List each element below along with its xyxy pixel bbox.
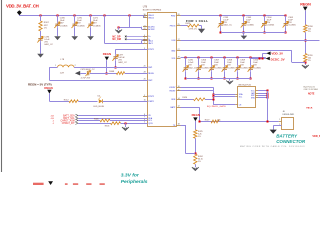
svg-text:CE: CE bbox=[239, 105, 242, 107]
junction bbox=[185, 78, 187, 80]
resistor R412 bbox=[69, 100, 78, 103]
svg-text:REGN: REGN bbox=[148, 73, 154, 75]
capacitor C470 bbox=[74, 22, 76, 25]
capacitor C281 bbox=[185, 57, 187, 65]
svg-text:DCDC_3V: DCDC_3V bbox=[271, 57, 285, 61]
power arrow clipped bbox=[48, 181, 53, 185]
wire bbox=[40, 31, 42, 36]
wire L78 left loop to SW2 bbox=[49, 67, 57, 69]
wire bbox=[40, 43, 42, 54]
svg-text:CC0805: CC0805 bbox=[60, 25, 68, 27]
svg-text:D+: D+ bbox=[148, 36, 151, 38]
svg-text:PACK: PACK bbox=[306, 107, 312, 110]
svg-text:PWD: PWD bbox=[171, 15, 176, 17]
svg-text:BTST2: BTST2 bbox=[148, 96, 154, 98]
wire bbox=[258, 90, 268, 92]
junction bbox=[220, 15, 222, 17]
svg-text:ILIM: ILIM bbox=[172, 40, 176, 42]
svg-text:25: 25 bbox=[178, 24, 180, 26]
svg-text:R306: R306 bbox=[94, 118, 99, 120]
svg-text:SRN: SRN bbox=[251, 98, 255, 100]
svg-text:GND: GND bbox=[171, 51, 176, 53]
svg-text:3.3V for: 3.3V for bbox=[121, 172, 140, 178]
capacitor C293 bbox=[220, 16, 222, 22]
wire BTST1 bbox=[116, 49, 148, 51]
svg-text:MATING CONN WITH CABLE P/N: DJ: MATING CONN WITH CABLE P/N: DJS1S0103 bbox=[240, 145, 305, 148]
svg-text:SW1: SW1 bbox=[148, 67, 152, 69]
wire bbox=[243, 33, 245, 36]
junction bbox=[285, 15, 287, 17]
wire bbox=[106, 60, 108, 73]
junction bbox=[264, 32, 266, 34]
wire LODRV bbox=[181, 87, 214, 89]
svg-text:VDD_3V: VDD_3V bbox=[271, 52, 283, 56]
junction bbox=[211, 78, 213, 80]
svg-text:VBL02: VBL02 bbox=[148, 18, 154, 20]
svg-text:1%: 1% bbox=[198, 136, 201, 138]
svg-text:LODRV: LODRV bbox=[169, 87, 176, 89]
svg-text:CC0805: CC0805 bbox=[267, 24, 275, 26]
svg-text:NC_DM: NC_DM bbox=[112, 38, 121, 41]
svg-text:CHRGT_INT: CHRGT_INT bbox=[62, 123, 76, 125]
svg-text:4.7uF 25V: 4.7uF 25V bbox=[81, 78, 91, 80]
wire bbox=[125, 123, 127, 127]
svg-text:1uH: 1uH bbox=[60, 72, 64, 74]
junction bbox=[224, 78, 226, 80]
svg-text:28: 28 bbox=[178, 57, 180, 59]
wire CHRGT_ASM bbox=[78, 120, 100, 122]
wire bbox=[195, 121, 197, 130]
resistor R427 bbox=[211, 120, 219, 123]
resistor R408 bbox=[116, 72, 124, 75]
svg-text:R427: R427 bbox=[205, 119, 210, 121]
junction bbox=[267, 95, 269, 97]
junction bbox=[250, 78, 252, 80]
svg-text:0402_CC: 0402_CC bbox=[44, 44, 53, 46]
ground bbox=[71, 36, 78, 40]
wire SYS rail y=58 bbox=[181, 57, 266, 59]
junction bbox=[264, 15, 266, 17]
capacitor C308 bbox=[224, 57, 226, 65]
ground bbox=[37, 54, 44, 58]
wire bbox=[305, 11, 307, 25]
svg-text:1%: 1% bbox=[308, 31, 311, 33]
svg-text:14: 14 bbox=[178, 98, 180, 100]
junction bbox=[243, 32, 245, 34]
junction bbox=[125, 123, 127, 125]
svg-text:VDD_3V_BAT_CH: VDD_3V_BAT_CH bbox=[6, 4, 39, 9]
svg-text:4: 4 bbox=[53, 120, 55, 122]
junction bbox=[220, 32, 222, 34]
svg-text:DS2001-WR1: DS2001-WR1 bbox=[283, 114, 295, 116]
svg-text:C478 0402_CC: C478 0402_CC bbox=[80, 69, 95, 71]
svg-text:27: 27 bbox=[178, 49, 180, 51]
net label clipped bottom 2 bbox=[65, 183, 68, 185]
svg-text:CC0805: CC0805 bbox=[77, 25, 85, 27]
wire bbox=[213, 96, 235, 98]
svg-text:BQ#PACK_GATE: BQ#PACK_GATE bbox=[207, 105, 226, 108]
junction bbox=[267, 97, 269, 99]
junction bbox=[195, 153, 197, 155]
resistor R307 bbox=[39, 21, 42, 31]
junction bbox=[243, 15, 245, 17]
wire GND line bbox=[181, 50, 292, 52]
ground bbox=[270, 130, 277, 134]
junction bbox=[129, 15, 131, 17]
svg-text:9: 9 bbox=[144, 95, 145, 97]
wire caps row2 bottom bus bbox=[186, 78, 251, 80]
op-amp U78 charger IC body bbox=[148, 13, 177, 127]
svg-text:CE: CE bbox=[148, 115, 151, 117]
svg-text:STAT1: STAT1 bbox=[148, 100, 154, 103]
junction bbox=[40, 15, 42, 17]
svg-text:SCL: SCL bbox=[148, 120, 152, 122]
junction bbox=[198, 78, 200, 80]
svg-text:CONNECTOR: CONNECTOR bbox=[276, 139, 306, 144]
wire bbox=[57, 15, 59, 21]
ground bbox=[54, 36, 61, 40]
capacitor C309 bbox=[237, 57, 239, 65]
junction bbox=[57, 15, 59, 17]
svg-text:BTST1: BTST1 bbox=[148, 49, 154, 51]
svg-text:CHRGT_ASM: CHRGT_ASM bbox=[60, 119, 74, 122]
wire bbox=[213, 94, 235, 96]
wire bbox=[103, 101, 148, 103]
svg-text:BATT_SDA: BATT_SDA bbox=[63, 114, 75, 117]
capacitor C303 bbox=[243, 16, 245, 22]
wire bbox=[305, 62, 307, 65]
wire bbox=[80, 73, 86, 75]
svg-text:1.0k: 1.0k bbox=[217, 119, 221, 121]
ground bbox=[192, 167, 199, 170]
svg-text:FOR 1 CELL: FOR 1 CELL bbox=[186, 19, 209, 23]
svg-text:U80 BQ27541: U80 BQ27541 bbox=[238, 85, 252, 87]
svg-text:SYS: SYS bbox=[172, 58, 177, 60]
wire BATP bbox=[181, 107, 200, 109]
net label clipped bottom bbox=[33, 183, 44, 185]
wire bbox=[258, 95, 268, 97]
svg-text:CC0805: CC0805 bbox=[253, 67, 261, 69]
wire ACDRV feed bbox=[129, 15, 131, 27]
capacitor C306 bbox=[198, 57, 200, 65]
svg-text:NOTE: NOTE bbox=[308, 94, 315, 96]
junction bbox=[118, 27, 120, 29]
wire bbox=[258, 93, 268, 95]
svg-text:ACDR2: ACDR2 bbox=[148, 28, 154, 31]
svg-text:L78: L78 bbox=[60, 59, 64, 61]
junction bbox=[262, 58, 264, 60]
junction bbox=[267, 93, 269, 95]
svg-text:1: 1 bbox=[55, 65, 56, 67]
resistor R358 bbox=[304, 25, 307, 33]
svg-text:11: 11 bbox=[178, 89, 180, 91]
junction bbox=[267, 90, 269, 92]
wire CHRGT_INT bbox=[78, 123, 110, 125]
power arrow bbox=[193, 117, 197, 121]
wire main VBAT rail y=15 bbox=[19, 15, 148, 17]
resistor R359 bbox=[304, 54, 307, 62]
off-page arrow bbox=[75, 71, 80, 76]
wire SW1 line bbox=[74, 67, 148, 69]
ground bbox=[241, 36, 248, 40]
junction bbox=[285, 32, 287, 34]
svg-text:ONLY 3.8V MAX: ONLY 3.8V MAX bbox=[304, 88, 319, 91]
svg-text:REGN: REGN bbox=[103, 52, 111, 56]
svg-text:BATP: BATP bbox=[170, 106, 176, 109]
svg-text:PROG: PROG bbox=[170, 25, 176, 27]
junction bbox=[250, 57, 252, 59]
ground bbox=[122, 127, 129, 130]
wire bbox=[201, 26, 203, 29]
wire bbox=[273, 125, 281, 127]
svg-text:1: 1 bbox=[279, 119, 280, 121]
svg-text:U78: U78 bbox=[143, 6, 148, 8]
capacitor C478 bbox=[86, 71, 88, 75]
svg-text:4: 4 bbox=[144, 35, 145, 37]
svg-text:2: 2 bbox=[75, 65, 76, 67]
capacitor C305 bbox=[285, 16, 287, 22]
junction bbox=[305, 62, 307, 64]
svg-text:2: 2 bbox=[144, 42, 145, 44]
wire bbox=[263, 53, 267, 55]
wire bbox=[118, 27, 120, 29]
svg-text:26: 26 bbox=[178, 14, 180, 16]
capacitor C471 bbox=[90, 22, 92, 25]
svg-text:4,B: 4,B bbox=[51, 115, 55, 117]
U78 pin stubs bbox=[143, 15, 148, 17]
svg-text:BATTERY: BATTERY bbox=[276, 134, 298, 139]
junction bbox=[115, 67, 117, 69]
wire caps bottom bus bbox=[221, 32, 286, 34]
wire ILIM line bbox=[181, 40, 320, 42]
power arrow DCDC_3V bbox=[266, 57, 270, 61]
capacitor C310 bbox=[250, 57, 252, 65]
svg-text:4: 4 bbox=[53, 123, 55, 125]
svg-text:1%: 1% bbox=[44, 27, 47, 29]
wire bbox=[195, 138, 197, 154]
power arrow VDD_3V bbox=[266, 52, 270, 56]
ground bbox=[87, 36, 94, 40]
U80 pin stubs bbox=[235, 94, 238, 96]
resistor R425 bbox=[194, 130, 197, 138]
sheet border left edge bbox=[1, 0, 3, 172]
power arrow bbox=[303, 7, 308, 11]
svg-text:4.99k 1%: 4.99k 1% bbox=[189, 28, 198, 30]
svg-text:17: 17 bbox=[178, 39, 180, 41]
capacitor C296 bbox=[40, 36, 42, 39]
connector J6 body bbox=[282, 118, 294, 130]
svg-text:Peripherals: Peripherals bbox=[121, 179, 148, 185]
wire HIDRV bbox=[181, 90, 214, 92]
op-amp U80 gas gauge body bbox=[238, 87, 256, 108]
svg-text:1%: 1% bbox=[308, 60, 311, 62]
svg-text:CC0805: CC0805 bbox=[201, 67, 209, 69]
wire bbox=[90, 15, 92, 21]
svg-text:QON: QON bbox=[148, 123, 153, 125]
svg-text:0402_CC: 0402_CC bbox=[223, 24, 232, 26]
resistor R424 bbox=[194, 154, 197, 164]
wire TS loop bbox=[181, 125, 186, 127]
junction bbox=[237, 78, 239, 80]
junction bbox=[104, 15, 106, 17]
svg-text:1%: 1% bbox=[198, 161, 201, 163]
svg-text:REGN: REGN bbox=[192, 113, 200, 117]
power arrow for VDD_3V_BAT_CH bbox=[17, 10, 22, 15]
wire bbox=[267, 91, 269, 122]
svg-text:12: 12 bbox=[178, 106, 180, 108]
junction bbox=[213, 94, 215, 96]
svg-text:CC0805: CC0805 bbox=[214, 67, 222, 69]
wire bbox=[90, 28, 92, 36]
wire battery rail bbox=[200, 121, 279, 123]
svg-text:0402_CC: 0402_CC bbox=[188, 67, 197, 69]
power arrow bbox=[105, 57, 109, 61]
svg-text:CC0805: CC0805 bbox=[288, 24, 296, 26]
junction bbox=[305, 40, 307, 42]
junction bbox=[237, 57, 239, 59]
junction bbox=[211, 57, 213, 59]
wire bbox=[258, 97, 268, 99]
svg-text:VAC1: VAC1 bbox=[148, 42, 153, 45]
junction bbox=[213, 96, 215, 98]
svg-text:18: 18 bbox=[178, 124, 180, 126]
wire PWD rail y=15.5 bbox=[181, 15, 286, 17]
svg-text:R408: R408 bbox=[109, 71, 115, 73]
wire bbox=[229, 79, 231, 81]
capacitor C307 bbox=[211, 57, 213, 65]
svg-text:31: 31 bbox=[144, 16, 146, 18]
junction bbox=[267, 121, 269, 123]
svg-text:CC0805: CC0805 bbox=[246, 24, 254, 26]
wire BATT_SDA bbox=[78, 115, 147, 117]
svg-text:CC0805: CC0805 bbox=[227, 67, 235, 69]
capacitor C477 bbox=[115, 54, 117, 57]
wire bbox=[74, 15, 76, 21]
svg-text:J6: J6 bbox=[283, 111, 286, 113]
svg-text:SW2: SW2 bbox=[148, 80, 152, 82]
resistor R426 bbox=[181, 99, 194, 101]
wire ACDRV jog bbox=[141, 27, 143, 30]
wire bbox=[74, 28, 76, 36]
svg-text:HIDRV: HIDRV bbox=[169, 91, 176, 93]
resistor R428 on PROG bbox=[181, 25, 188, 27]
svg-text:BLUETOOTH(PMU): BLUETOOTH(PMU) bbox=[143, 9, 162, 11]
power arrow bbox=[47, 90, 51, 94]
junction bbox=[90, 15, 92, 17]
junction bbox=[199, 121, 201, 123]
svg-text:SCL: SCL bbox=[239, 96, 243, 98]
junction bbox=[106, 73, 108, 75]
wire bbox=[305, 32, 307, 53]
capacitor C490 bbox=[57, 22, 59, 25]
svg-text:REGN: REGN bbox=[44, 86, 52, 90]
junction bbox=[185, 57, 187, 59]
svg-text:REGN: REGN bbox=[300, 3, 311, 7]
ground bbox=[115, 30, 122, 33]
svg-text:VDD_B: VDD_B bbox=[312, 135, 320, 138]
svg-text:CC0805: CC0805 bbox=[240, 67, 248, 69]
junction bbox=[74, 15, 76, 17]
ground bbox=[198, 29, 205, 33]
ground bbox=[226, 81, 233, 84]
wire bbox=[57, 28, 59, 36]
svg-text:R305: R305 bbox=[105, 126, 110, 128]
wire bbox=[115, 61, 117, 67]
junction bbox=[213, 99, 215, 101]
svg-text:0402_CC: 0402_CC bbox=[118, 62, 127, 64]
wire bbox=[40, 15, 42, 21]
svg-text:22: 22 bbox=[144, 28, 146, 30]
junction bbox=[259, 58, 261, 60]
connector J6 pins bbox=[279, 121, 282, 123]
wire bbox=[49, 93, 51, 101]
svg-text:10: 10 bbox=[178, 86, 180, 88]
junction bbox=[198, 57, 200, 59]
svg-text:LED_BLUE: LED_BLUE bbox=[93, 106, 104, 108]
wire BATT_SCL bbox=[78, 118, 147, 120]
wire bbox=[195, 164, 197, 167]
svg-text:CC0805: CC0805 bbox=[93, 25, 101, 27]
wire VAC2 jog bbox=[141, 41, 143, 43]
svg-text:SRN: SRN bbox=[171, 99, 176, 101]
capacitor C304 bbox=[264, 16, 266, 22]
wire VAC feed bbox=[104, 15, 106, 43]
junction bbox=[224, 57, 226, 59]
ground bbox=[302, 65, 309, 68]
svg-text:R426: R426 bbox=[182, 97, 188, 99]
wire VBL jog bbox=[143, 15, 145, 18]
